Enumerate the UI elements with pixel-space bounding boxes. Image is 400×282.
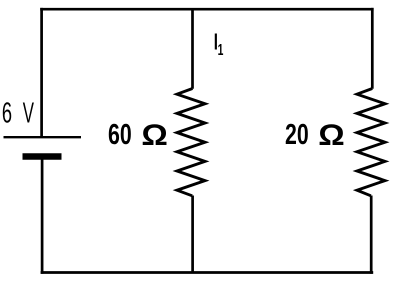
- svg-text:1: 1: [218, 41, 224, 59]
- wire right lower (resistor R2 down to bottom-right corner): [370, 196, 373, 274]
- svg-text:Ω: Ω: [318, 117, 344, 151]
- wire left upper (top-left corner down to battery plus plate): [40, 8, 43, 137]
- resistor R1 zigzag (60 ohm): [177, 89, 205, 196]
- svg-text:Ω: Ω: [141, 117, 167, 151]
- svg-text:V: V: [23, 98, 34, 130]
- wire middle lower (resistor R1 down to bottom junction): [191, 196, 194, 273]
- wire left lower (battery minus plate down to bottom-left corner): [41, 160, 44, 274]
- svg-text:6: 6: [2, 97, 12, 129]
- svg-text:60: 60: [108, 119, 132, 151]
- battery B1 positive plate (long thin line): [4, 136, 82, 138]
- wire right upper (top-right corner down to resistor R2): [371, 8, 374, 89]
- wire top horizontal: [40, 8, 373, 11]
- battery B1 negative plate (short thick line): [23, 153, 62, 159]
- resistor R2 zigzag (20 ohm): [357, 89, 385, 196]
- wire middle upper (top junction down to resistor R1): [191, 9, 194, 89]
- wire bottom horizontal: [41, 271, 374, 274]
- svg-text:20: 20: [285, 119, 309, 151]
